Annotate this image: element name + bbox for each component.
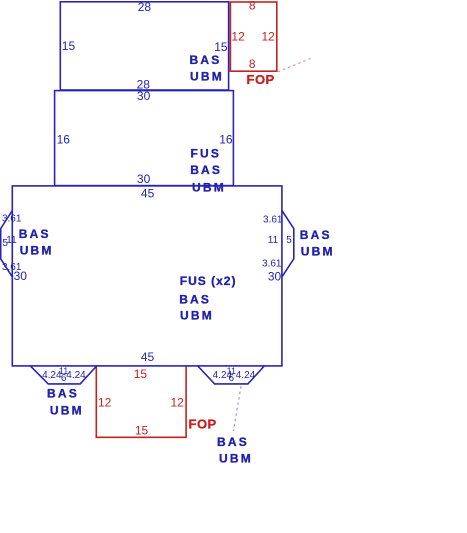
- svg-text:FUS (x2): FUS (x2): [180, 274, 237, 288]
- svg-text:8: 8: [249, 0, 256, 13]
- svg-text:FUS: FUS: [191, 146, 222, 160]
- tab trapezoid bottom-right: [198, 366, 264, 384]
- svg-text:BAS: BAS: [179, 292, 211, 306]
- tab trapezoid bottom-left: [31, 366, 97, 384]
- svg-text:30: 30: [137, 89, 151, 103]
- svg-text:UBM: UBM: [20, 243, 54, 257]
- svg-text:30: 30: [137, 172, 151, 186]
- svg-text:4.24: 4.24: [66, 370, 86, 381]
- svg-text:UBM: UBM: [180, 309, 214, 323]
- svg-text:15: 15: [214, 40, 228, 54]
- svg-text:FOP: FOP: [247, 72, 275, 87]
- svg-text:3.61: 3.61: [2, 214, 22, 225]
- svg-text:BAS: BAS: [217, 435, 249, 449]
- svg-text:BAS: BAS: [47, 386, 79, 400]
- svg-text:6: 6: [229, 373, 235, 384]
- svg-text:UBM: UBM: [190, 70, 224, 84]
- svg-text:45: 45: [141, 186, 155, 200]
- leader dashed FOP top: [278, 58, 313, 72]
- tab hexagon right: [282, 211, 294, 277]
- svg-text:8: 8: [249, 57, 256, 71]
- svg-text:12: 12: [261, 30, 275, 44]
- svg-text:3.61: 3.61: [263, 214, 283, 225]
- svg-text:30: 30: [268, 270, 282, 284]
- svg-text:4.24: 4.24: [236, 370, 256, 381]
- svg-text:FOP: FOP: [189, 417, 217, 432]
- svg-text:15: 15: [135, 423, 149, 437]
- svg-text:UBM: UBM: [301, 245, 335, 259]
- svg-text:3.61: 3.61: [262, 259, 282, 270]
- svg-text:28: 28: [138, 0, 152, 14]
- svg-text:UBM: UBM: [219, 452, 253, 466]
- svg-text:45: 45: [141, 350, 155, 364]
- svg-text:5: 5: [286, 235, 292, 246]
- board outline rect2 (30x16): [55, 91, 234, 186]
- svg-text:BAS: BAS: [190, 163, 222, 177]
- fixture rect FOP top (8x12): [230, 2, 276, 71]
- svg-text:UBM: UBM: [192, 180, 226, 194]
- leader dashed bottom-right tab: [233, 386, 241, 431]
- svg-text:BAS: BAS: [190, 53, 222, 67]
- board outline rect1 (28x15): [60, 2, 228, 90]
- svg-text:15: 15: [62, 39, 76, 53]
- svg-text:UBM: UBM: [50, 403, 84, 417]
- svg-text:16: 16: [57, 133, 71, 147]
- board outline rect3 (45x30): [12, 186, 282, 366]
- svg-text:3.61: 3.61: [2, 262, 22, 273]
- svg-text:12: 12: [98, 396, 112, 410]
- tab hexagon left: [1, 211, 13, 277]
- svg-text:15: 15: [134, 367, 148, 381]
- svg-text:12: 12: [231, 30, 245, 44]
- fixture rect FOP bottom (15x12): [96, 366, 186, 437]
- svg-text:BAS: BAS: [300, 228, 332, 242]
- svg-text:5: 5: [2, 238, 8, 249]
- svg-text:12: 12: [170, 396, 184, 410]
- svg-text:11: 11: [268, 235, 279, 246]
- svg-text:BAS: BAS: [19, 227, 51, 241]
- svg-text:16: 16: [219, 133, 233, 147]
